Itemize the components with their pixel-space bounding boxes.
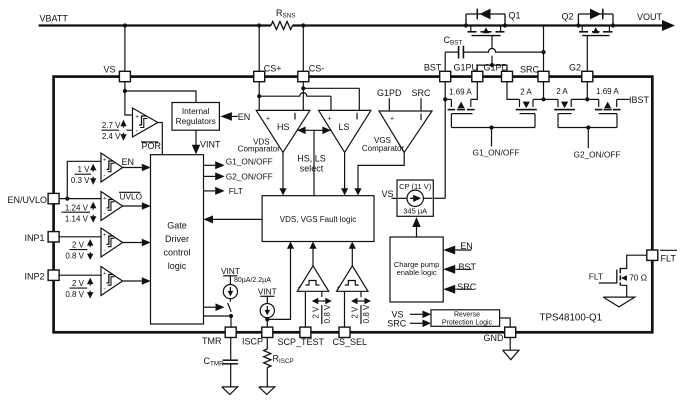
svg-text:FLT: FLT bbox=[589, 272, 603, 282]
transistor Q2 body diode bbox=[578, 9, 613, 26]
svg-text:2 V: 2 V bbox=[351, 306, 360, 319]
svg-text:VOUT: VOUT bbox=[637, 12, 663, 22]
switch TMR timer select bbox=[228, 299, 232, 312]
pin ISCP bbox=[242, 327, 273, 347]
wire INP2 pin to comparator bbox=[59, 274, 101, 276]
svg-text:Q2: Q2 bbox=[562, 12, 574, 22]
ground RISCP bbox=[259, 368, 275, 395]
IC boundary TPS48100-Q1 bbox=[54, 77, 653, 333]
block Charge pump enable logic bbox=[390, 237, 443, 302]
svg-text:-: - bbox=[103, 247, 105, 254]
svg-text:EN: EN bbox=[460, 241, 473, 251]
junction SRC node bbox=[541, 97, 545, 101]
wire G2 2A block to G2 node bbox=[571, 98, 587, 100]
wire INP1 comparator output bbox=[123, 239, 151, 247]
wire VS pin to rail bbox=[124, 26, 126, 72]
wire fault logic to gate driver bbox=[204, 215, 263, 223]
svg-text:+: + bbox=[266, 115, 270, 122]
wire TMR pin to CTMR bbox=[230, 338, 232, 360]
svg-text:1.14 V: 1.14 V bbox=[65, 215, 89, 224]
svg-text:VS: VS bbox=[104, 65, 116, 75]
svg-text:G1PD: G1PD bbox=[484, 62, 509, 72]
junction rail-VS bbox=[123, 23, 127, 27]
label Q2 bbox=[562, 12, 574, 22]
svg-text:VINT: VINT bbox=[221, 266, 240, 276]
svg-text:+: + bbox=[103, 196, 106, 202]
svg-text:VBATT: VBATT bbox=[40, 14, 69, 24]
svg-text:70 Ω: 70 Ω bbox=[629, 273, 647, 283]
svg-text:2 V: 2 V bbox=[311, 306, 320, 319]
wire EN/UVLO pin to UVLO comparator bbox=[59, 198, 101, 200]
svg-text:2.7 V: 2.7 V bbox=[102, 121, 121, 130]
label RISCP bbox=[273, 354, 294, 366]
svg-text:VINT: VINT bbox=[200, 140, 221, 150]
wire CS+ to LS comparator bbox=[259, 93, 331, 111]
label VDS Comparator bbox=[238, 137, 281, 153]
wire ISCP to fault logic bbox=[267, 242, 294, 320]
label VS charge pump input bbox=[382, 189, 398, 199]
svg-text:2 A: 2 A bbox=[520, 87, 532, 96]
label Q1 bbox=[509, 10, 521, 20]
wire ISCP pin to RISCP bbox=[266, 338, 268, 349]
svg-text:HS, LS: HS, LS bbox=[297, 154, 326, 164]
comparator EN bbox=[101, 153, 123, 182]
svg-text:CBST: CBST bbox=[444, 35, 463, 47]
comparator INP1 bbox=[101, 228, 123, 257]
current source 1.69A G2 pull-up pair bbox=[595, 87, 621, 110]
svg-text:Q1: Q1 bbox=[509, 10, 521, 20]
svg-text:-: - bbox=[103, 211, 105, 218]
svg-text:GND: GND bbox=[484, 333, 505, 343]
svg-text:0.8 V: 0.8 V bbox=[362, 304, 371, 323]
wire BST node to 1.69A block bbox=[445, 98, 451, 100]
svg-text:G2: G2 bbox=[569, 62, 581, 72]
wire POR output to gate driver bbox=[158, 123, 163, 155]
label CBST bbox=[444, 35, 463, 47]
svg-text:1.69 A: 1.69 A bbox=[596, 87, 619, 96]
wire SCP_TEST pin to comparator bbox=[304, 291, 306, 327]
block Gate Driver control logic bbox=[151, 155, 204, 324]
svg-text:345 µA: 345 µA bbox=[403, 207, 427, 216]
svg-text:BST: BST bbox=[424, 62, 442, 72]
junction rail-CS+ bbox=[257, 23, 261, 27]
comparator LS (VDS low side) bbox=[319, 110, 371, 152]
junction G2 gate-control bbox=[586, 125, 590, 129]
wire SRC input charge pump bbox=[443, 282, 477, 293]
wire G2 node to 1.69A block bbox=[587, 98, 598, 100]
svg-text:0.8 V: 0.8 V bbox=[65, 290, 84, 299]
wire BST pin up to CBST bbox=[444, 52, 446, 71]
label G1_ON/OFF bbox=[473, 147, 520, 157]
svg-text:2.4 V: 2.4 V bbox=[102, 132, 121, 141]
wire G1PU pin to 1.69A block bbox=[471, 82, 478, 100]
junction VS-internal-regulators bbox=[123, 89, 127, 93]
label EN thresholds 1V 0.3V bbox=[71, 164, 97, 185]
label UVLO comparator output bbox=[119, 191, 143, 201]
pin FLT-bar bbox=[647, 250, 677, 263]
svg-text:+: + bbox=[103, 271, 106, 277]
block Reverse Protection Logic bbox=[431, 310, 500, 327]
svg-text:IBST: IBST bbox=[629, 95, 650, 105]
comparator UVLO bbox=[101, 192, 123, 221]
svg-text:2 A: 2 A bbox=[556, 87, 568, 96]
svg-text:LS: LS bbox=[339, 122, 350, 132]
pin G1PU bbox=[454, 62, 483, 81]
capacitor CBST bbox=[445, 46, 543, 59]
svg-text:enable logic: enable logic bbox=[397, 268, 437, 277]
gate bracket G1 blocks bbox=[451, 114, 535, 128]
svg-text:VINT: VINT bbox=[258, 286, 277, 296]
wire VBATT rail bbox=[39, 24, 663, 26]
wire G1_ON/OFF output bbox=[204, 157, 273, 170]
wire switch control from gate driver bbox=[204, 303, 225, 311]
wire G2_ON/OFF stem bbox=[587, 128, 589, 149]
junction source-CBST bbox=[541, 50, 545, 54]
pin EN/UVLO bbox=[8, 193, 60, 205]
wire CS- to HS comparator bbox=[302, 82, 304, 111]
wire ISCP source to pin bbox=[266, 318, 268, 327]
junction Q2 drain-rail bbox=[576, 23, 580, 27]
svg-text:Protection Logic: Protection Logic bbox=[442, 320, 493, 327]
resistor RISCP bbox=[264, 349, 271, 368]
svg-text:INP1: INP1 bbox=[25, 233, 45, 243]
label CTMR bbox=[204, 356, 225, 368]
junction G2 node bbox=[585, 97, 589, 101]
wire gate driver to TMR node bbox=[204, 315, 232, 317]
svg-text:CS_SEL: CS_SEL bbox=[333, 337, 368, 347]
wire SCP_TEST comparator reference bbox=[321, 291, 323, 324]
wire FLT pin to FET drain bbox=[621, 255, 647, 268]
comparator HS (VDS high side) bbox=[256, 110, 310, 152]
svg-text:Comparator: Comparator bbox=[238, 145, 281, 154]
wire CS+ to HS comparator bbox=[258, 82, 260, 111]
wire UVLO comparator output bbox=[123, 202, 151, 210]
wire VINT output bbox=[192, 130, 221, 154]
current source 2A G1 pull-down pair bbox=[516, 87, 537, 109]
label FLT gate bbox=[589, 272, 603, 282]
svg-text:G2_ON/OFF: G2_ON/OFF bbox=[226, 171, 273, 181]
wire reverse protection to GND pin bbox=[500, 318, 511, 327]
svg-text:+: + bbox=[390, 115, 394, 122]
svg-text:G1PU: G1PU bbox=[454, 62, 479, 72]
svg-text:SRC: SRC bbox=[457, 282, 477, 292]
current source ISCP VINT bbox=[258, 286, 277, 317]
pin G2 bbox=[569, 62, 593, 81]
current source 1.69A G1 pull-up pair bbox=[448, 87, 475, 109]
wire G1_ON/OFF stem bbox=[491, 128, 493, 147]
junction BST node bbox=[443, 97, 447, 101]
svg-text:INP2: INP2 bbox=[25, 272, 45, 282]
wire SRC pin down bbox=[543, 82, 545, 100]
wire Q2 gate to G2 pin bbox=[586, 36, 588, 72]
wire SRC node to G2 2A block bbox=[544, 98, 559, 100]
label POR thresholds 2.7V 2.4V bbox=[102, 120, 133, 141]
svg-text:FLT: FLT bbox=[229, 186, 243, 196]
current source 2A G2 pull-down pair bbox=[554, 87, 575, 110]
junction CS+ branch bbox=[257, 94, 261, 98]
svg-text:ISCP: ISCP bbox=[242, 337, 263, 347]
wire VS to internal regulators bbox=[125, 91, 196, 103]
comparator INP2 bbox=[101, 267, 123, 296]
wire CS_SEL comparator reference bbox=[360, 291, 362, 324]
junction rail-CS- bbox=[301, 23, 305, 27]
junction Q2 source-rail bbox=[611, 23, 615, 27]
svg-text:G1_ON/OFF: G1_ON/OFF bbox=[226, 157, 273, 167]
pin CS_SEL bbox=[333, 327, 368, 347]
svg-text:-: - bbox=[103, 172, 105, 179]
svg-text:+: + bbox=[337, 285, 341, 291]
wire INP1 pin to comparator bbox=[59, 236, 101, 238]
wire VS to POR bbox=[125, 82, 133, 115]
svg-text:+: + bbox=[328, 115, 332, 122]
svg-text:1.24 V: 1.24 V bbox=[65, 203, 89, 212]
label INP2 thresholds 2V 0.8V bbox=[65, 278, 93, 300]
svg-text:select: select bbox=[300, 164, 324, 174]
junction Q1 drain-rail bbox=[464, 23, 468, 27]
label SCP_TEST thresholds rotated bbox=[311, 298, 332, 324]
junction G1 gate-control bbox=[489, 125, 493, 129]
label POR bbox=[141, 141, 162, 151]
wire EN into internal regulators bbox=[220, 112, 250, 122]
svg-text:RSNS: RSNS bbox=[276, 8, 295, 19]
pin TMR bbox=[202, 327, 236, 346]
svg-text:Comparator: Comparator bbox=[362, 144, 405, 153]
transistor FLT output MOSFET bbox=[599, 268, 627, 297]
wire G1PU-G1PD gate bracket bbox=[477, 65, 507, 71]
wire SCP_TEST comparator to fault logic bbox=[309, 242, 316, 266]
svg-text:Regulators: Regulators bbox=[176, 116, 216, 126]
svg-text:G1PD: G1PD bbox=[377, 88, 402, 98]
label G2_ON/OFF bbox=[574, 149, 621, 159]
svg-text:EN: EN bbox=[122, 157, 135, 167]
svg-text:+: + bbox=[103, 157, 106, 163]
gate bracket G2 blocks bbox=[558, 114, 617, 128]
svg-text:CS+: CS+ bbox=[264, 63, 282, 73]
wire BST pin down to charge pump bbox=[444, 82, 446, 199]
label CS_SEL thresholds rotated bbox=[351, 298, 372, 324]
svg-text:0.8 V: 0.8 V bbox=[323, 304, 332, 323]
ground CTMR bbox=[222, 364, 238, 395]
wire VGS output to fault logic bbox=[354, 152, 404, 195]
svg-text:Driver: Driver bbox=[165, 234, 189, 244]
label G1PD input bbox=[377, 88, 402, 111]
wire FLT output bbox=[204, 186, 243, 196]
wire EN comparator output bbox=[123, 164, 151, 172]
transistor Q1 body diode bbox=[466, 9, 505, 26]
pin INP1 bbox=[25, 232, 60, 244]
block VDS VGS Fault logic bbox=[262, 196, 374, 242]
svg-text:1.69 A: 1.69 A bbox=[449, 87, 472, 96]
svg-text:HS: HS bbox=[277, 122, 290, 132]
label TPS48100-Q1 bbox=[540, 313, 603, 324]
svg-text:BST: BST bbox=[459, 262, 477, 272]
wire CS_SEL pin to comparator bbox=[344, 291, 346, 327]
wire CS+ pin to rail bbox=[258, 26, 260, 72]
resistor 70 ohm label bbox=[629, 273, 647, 283]
svg-text:logic: logic bbox=[168, 261, 187, 271]
svg-text:+: + bbox=[103, 232, 106, 238]
wire 2A block to SRC node bbox=[533, 98, 544, 100]
svg-text:G1_ON/OFF: G1_ON/OFF bbox=[473, 147, 520, 157]
wire G1PD pin to 2A block bbox=[507, 82, 520, 100]
label INP1 thresholds 2V 0.8V bbox=[65, 239, 93, 261]
wire CS_SEL comparator to fault logic bbox=[349, 242, 356, 266]
wire charge pump enable to CP bbox=[412, 217, 420, 237]
svg-text:-: - bbox=[103, 286, 105, 293]
wire Q1 gate to G1PU/G1PD bracket bbox=[491, 36, 493, 66]
svg-text:SRC: SRC bbox=[387, 318, 407, 328]
comparator POR bbox=[133, 108, 158, 137]
comparator CS_SEL bbox=[337, 266, 368, 292]
svg-text:Reverse: Reverse bbox=[454, 312, 480, 319]
ground GND pin bbox=[503, 338, 519, 360]
label SRC input bbox=[411, 88, 431, 111]
svg-text:FLT: FLT bbox=[661, 253, 677, 263]
comparator SCP_TEST bbox=[297, 266, 328, 292]
svg-text:VS: VS bbox=[382, 189, 394, 199]
junction EN/UVLO net bbox=[65, 197, 69, 201]
svg-text:SRC: SRC bbox=[411, 88, 431, 98]
pin CS+ bbox=[254, 63, 282, 81]
junction Q1 source-rail bbox=[503, 23, 507, 27]
wire EN input charge pump bbox=[443, 241, 473, 254]
wire EN/UVLO pin to EN comparator bbox=[67, 161, 101, 198]
svg-text:2 V: 2 V bbox=[72, 240, 85, 249]
junction ISCP node bbox=[265, 317, 269, 321]
pin BST bbox=[424, 62, 451, 81]
wire BST input charge pump bbox=[443, 262, 476, 274]
pin INP2 bbox=[25, 270, 60, 282]
wire G2_ON/OFF output bbox=[204, 171, 273, 181]
svg-text:EN: EN bbox=[238, 112, 251, 122]
junction CS- branch bbox=[301, 86, 305, 90]
svg-text:+: + bbox=[298, 285, 302, 291]
wire CP output to BST bbox=[433, 197, 445, 199]
label UVLO thresholds 1.24V 1.14V bbox=[62, 202, 97, 224]
wire G2 pin down bbox=[586, 82, 588, 100]
junction Q1 gate node bbox=[490, 63, 494, 67]
label IBST bbox=[629, 95, 650, 105]
wire IBST stub bbox=[617, 98, 630, 100]
svg-text:80µA/2.2µA: 80µA/2.2µA bbox=[234, 277, 271, 284]
junction TMR node bbox=[229, 314, 233, 318]
current source 80uA/2.2uA bbox=[221, 266, 271, 299]
pin GND bbox=[484, 327, 516, 343]
wire SRC input reverse protection bbox=[387, 318, 431, 328]
svg-text:TPS48100-Q1: TPS48100-Q1 bbox=[540, 313, 603, 324]
label VGS Comparator bbox=[362, 136, 405, 153]
svg-text:VDS, VGS Fault logic: VDS, VGS Fault logic bbox=[280, 215, 356, 224]
svg-text:CS-: CS- bbox=[309, 63, 325, 73]
svg-text:1 V: 1 V bbox=[77, 165, 90, 174]
svg-text:CTMR: CTMR bbox=[204, 356, 225, 368]
svg-text:EN/UVLO: EN/UVLO bbox=[8, 195, 48, 205]
svg-text:CP (11 V): CP (11 V) bbox=[399, 182, 432, 191]
pin CS- bbox=[298, 63, 325, 81]
wire LS output to fault logic bbox=[341, 152, 348, 195]
node VOUT arrow and label bbox=[637, 12, 675, 31]
wire HS LS select line bbox=[313, 130, 315, 195]
transistor Q2 MOSFET bbox=[579, 26, 613, 36]
wire TMR node to pin bbox=[230, 316, 232, 327]
node VBATT label bbox=[40, 14, 69, 24]
block CP charge pump 11V bbox=[397, 180, 433, 216]
wire CS- pin to rail bbox=[302, 26, 304, 72]
svg-text:TMR: TMR bbox=[202, 336, 222, 346]
svg-text:2 V: 2 V bbox=[72, 279, 85, 288]
ground FLT FET bbox=[603, 297, 635, 307]
wire CS- to LS comparator bbox=[303, 88, 359, 110]
capacitor CTMR bbox=[223, 360, 238, 364]
label HS LS select bbox=[297, 154, 326, 174]
wire HS output to fault logic bbox=[279, 152, 286, 195]
transistor Q1 MOSFET bbox=[468, 26, 505, 36]
wire common source to SRC pin bbox=[543, 26, 545, 72]
svg-text:0.8 V: 0.8 V bbox=[65, 252, 84, 261]
wire HS LS select arrows bbox=[297, 127, 331, 135]
pin VS bbox=[104, 65, 131, 82]
svg-text:control: control bbox=[163, 247, 190, 257]
svg-text:0.3 V: 0.3 V bbox=[71, 176, 90, 185]
pin G1PD bbox=[484, 62, 513, 81]
label EN comparator output bbox=[122, 157, 135, 167]
block Internal Regulators bbox=[172, 103, 219, 131]
svg-text:Internal: Internal bbox=[182, 106, 210, 116]
svg-text:RISCP: RISCP bbox=[273, 354, 294, 366]
comparator VGS bbox=[379, 111, 432, 152]
svg-text:G2_ON/OFF: G2_ON/OFF bbox=[574, 149, 621, 159]
svg-text:+: + bbox=[135, 115, 139, 121]
svg-text:SRC: SRC bbox=[520, 65, 540, 75]
svg-text:Gate: Gate bbox=[167, 220, 187, 230]
svg-text:SCP_TEST: SCP_TEST bbox=[278, 337, 325, 347]
wire VS input reverse protection bbox=[392, 309, 432, 319]
wire INP2 comparator output bbox=[123, 277, 151, 285]
pin SCP_TEST bbox=[278, 327, 325, 347]
resistor RSNS bbox=[271, 22, 293, 30]
pin SRC bbox=[520, 65, 549, 82]
label RSNS bbox=[276, 8, 295, 19]
